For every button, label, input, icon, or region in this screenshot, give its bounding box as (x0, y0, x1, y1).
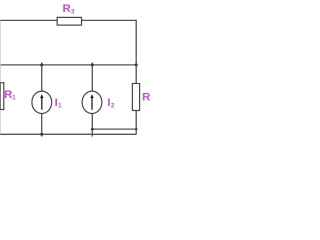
svg-text:R2: R2 (142, 91, 150, 103)
wire middle rail (0, 64, 136, 66)
resistor R2 (132, 84, 139, 111)
node I2-bottom junction (91, 128, 94, 131)
wire left rail remnant (0, 20, 1, 134)
wire I1 branch (41, 63, 43, 93)
wire top rail (0, 19, 136, 21)
wire I2 branch (91, 63, 93, 93)
node I1-bottom junction (40, 133, 43, 136)
wire right rail (135, 20, 137, 135)
current source I1 (32, 91, 52, 113)
node right-rail/link junction (135, 128, 137, 130)
wire bottom rail (0, 133, 136, 135)
node I2-top junction (91, 63, 94, 66)
resistor R1 (clipped at left edge) (0, 83, 4, 110)
node I1-top junction (40, 63, 43, 66)
resistor R3 (57, 17, 81, 25)
wire bottom-right link (92, 128, 136, 130)
node right-rail/middle junction (135, 63, 138, 66)
current source I2 (82, 91, 102, 113)
